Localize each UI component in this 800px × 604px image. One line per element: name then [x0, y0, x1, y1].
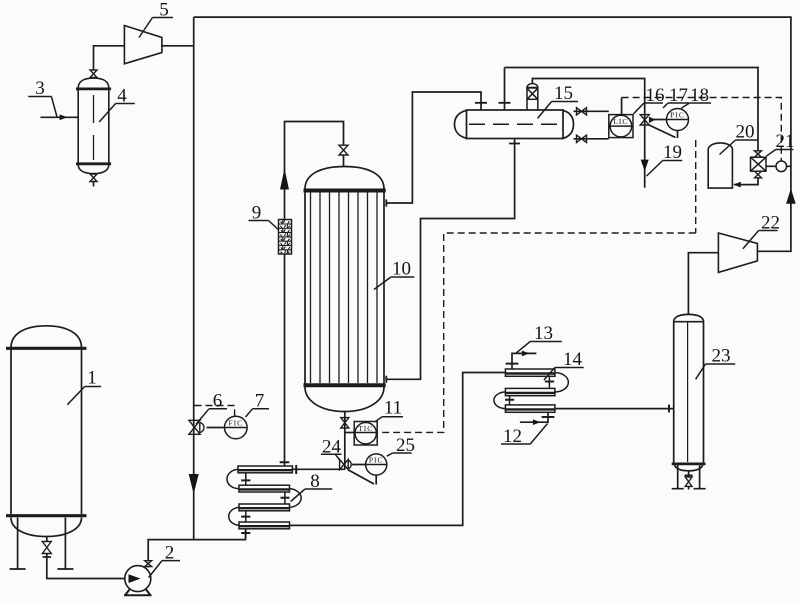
svg-text:PIC: PIC: [670, 110, 685, 119]
svg-text:PIC: PIC: [369, 455, 384, 464]
svg-text:LIC: LIC: [613, 117, 628, 126]
svg-text:11: 11: [384, 398, 402, 419]
svg-text:TIC: TIC: [358, 424, 373, 433]
svg-text:1: 1: [87, 368, 97, 389]
svg-text:FIC: FIC: [228, 418, 243, 427]
